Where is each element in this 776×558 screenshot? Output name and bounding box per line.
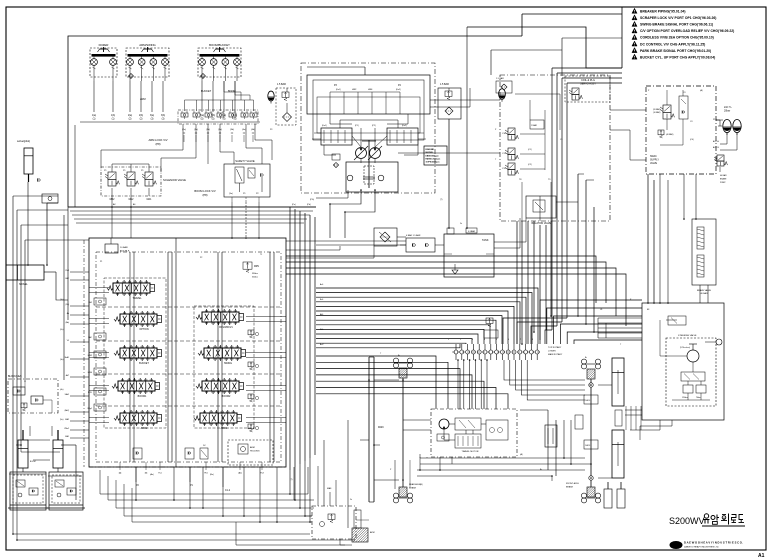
steering inner pipes: [666, 319, 677, 321]
svg-text:XBp1: XBp1: [87, 408, 92, 410]
svg-text:D A E W O O H E A V Y I N D: D A E W O O H E A V Y I N D U S T R I E …: [684, 541, 743, 545]
wire manifold-swac link: [610, 109, 646, 111]
svg-text:(6): (6): [223, 119, 226, 121]
pump suction box: [346, 162, 398, 192]
svg-text:BOOM: BOOM: [30, 461, 36, 463]
MCV bottom port ticks: [119, 462, 121, 470]
svg-text:BRAKE: BRAKE: [566, 486, 574, 489]
svg-text:SUPPLY: SUPPLY: [650, 160, 659, 162]
svg-text:MA2: MA2: [65, 418, 69, 421]
svg-text:(20 BAR): (20 BAR): [653, 108, 661, 111]
svg-text:5: 5: [496, 339, 497, 341]
svg-text:(P8): (P8): [202, 193, 207, 197]
wire bottom right bus risers: [419, 457, 421, 458]
svg-text:0.5BAR: 0.5BAR: [468, 230, 476, 233]
travel counterbalance valve: [455, 418, 481, 430]
rotary joint axis line: [452, 351, 540, 353]
main pump P2: [370, 148, 381, 159]
svg-text:(1): (1): [93, 119, 96, 121]
shuttle valve S5: [229, 113, 236, 117]
block relief: [21, 403, 27, 408]
svg-text:(Ka1): (Ka1): [322, 125, 327, 127]
svg-text:(1): (1): [112, 119, 115, 121]
svg-text:ARM2: ARM2: [141, 427, 148, 430]
wire MCV bottom drop verticals: [135, 467, 137, 500]
filter element: [283, 113, 292, 122]
svg-text:(10 BAR): (10 BAR): [653, 111, 661, 114]
steer cylinder link: [615, 410, 622, 426]
svg-text:MRV: MRV: [254, 266, 260, 268]
svg-text:(x): (x): [252, 133, 255, 135]
brake hose block: [545, 425, 557, 447]
wire cooler return: [286, 240, 406, 242]
MCV port relief valves: [248, 330, 254, 335]
svg-text:BOOM1: BOOM1: [138, 395, 147, 398]
svg-text:(2a): (2a): [182, 129, 186, 131]
solenoid feed lines: [111, 164, 113, 172]
svg-text:3(a): 3(a): [150, 115, 154, 117]
safety lever valve: [235, 167, 244, 183]
shuttle valve S4: [217, 113, 224, 117]
svg-text:(3): (3): [151, 119, 154, 121]
travel motor inner pipes: [449, 423, 455, 425]
wire left margin risers: [63, 215, 65, 380]
svg-text:P1: P1: [100, 261, 102, 263]
svg-text:C1-2: C1-2: [225, 490, 231, 492]
svg-text:SCRAPER LOCK V/V PORT OP1 CHG(: SCRAPER LOCK V/V PORT OP1 CHG('96.03.26): [640, 16, 716, 20]
swac supply valve enclosure: [646, 86, 716, 174]
svg-text:SWAC: SWAC: [650, 155, 657, 158]
note 8 warning triangle: [632, 54, 637, 59]
svg-text:(Ra): (Ra): [66, 304, 70, 306]
MCV spool link lines: [89, 287, 109, 289]
svg-text:10 BAR: 10 BAR: [120, 246, 128, 249]
front axle junction top: [589, 383, 593, 387]
note 2 warning triangle: [632, 15, 637, 20]
svg-text:20bar: 20bar: [724, 110, 730, 113]
svg-text:ARM1: ARM1: [221, 427, 228, 430]
notes enclosure polyline: [467, 27, 622, 68]
cylinder to block links: [22, 468, 24, 472]
notes left boundary line: [621, 7, 623, 68]
svg-text:2(b): 2(b): [139, 115, 143, 117]
outrigger valve block RH: [49, 472, 83, 510]
svg-text:MA1: MA1: [147, 198, 152, 201]
svg-text:(C4): (C4): [690, 139, 694, 141]
pilot circuit enclosure: [68, 36, 522, 207]
solenoid valve MR2: [108, 172, 116, 180]
MCV bottom dashdot line: [89, 466, 286, 468]
wire steering feed risers: [597, 318, 599, 338]
svg-text:HIN2: HIN2: [88, 355, 92, 357]
rotary joint ports: [454, 350, 458, 354]
wire isolation to manifold: [539, 196, 541, 221]
front axle bottom wheels: [581, 493, 586, 498]
wire pilot bus verticals full height: [289, 207, 291, 470]
wire cascade lower to travel motor: [316, 356, 436, 409]
rear axle bottom wheels: [393, 493, 398, 498]
svg-text:BRAKE VALVE: BRAKE VALVE: [697, 289, 712, 292]
wire rotary down right: [504, 360, 585, 380]
MCV spool OPTION: [120, 314, 157, 324]
wire brake valve down: [699, 285, 701, 303]
safety check valve: [261, 174, 263, 176]
solenoid valve MA1: [145, 172, 153, 180]
svg-text:7: 7: [520, 339, 521, 341]
solenoid valve C12: [508, 163, 515, 170]
manifold accumulator: [499, 89, 506, 100]
main pump P1: [356, 148, 367, 159]
oscillation cylinder base A: [604, 489, 612, 508]
svg-text:Ba1: Ba1: [320, 299, 323, 301]
swivel pilot cylinder: [24, 148, 33, 174]
svg-text:BUCKET: BUCKET: [139, 362, 149, 365]
wire pump to manifold: [398, 152, 500, 154]
wire solenoid group down: [111, 207, 113, 238]
svg-text:(P1): (P1): [355, 125, 359, 127]
svg-text:(T): (T): [440, 199, 443, 201]
svg-text:XAC: XAC: [88, 336, 93, 339]
svg-text:BOOM/BUCKET: BOOM/BUCKET: [209, 43, 230, 47]
svg-text:(PG): (PG): [310, 199, 314, 201]
wire bottom right bus: [420, 457, 585, 459]
oil cooler: [374, 228, 397, 246]
svg-text:XAb2: XAb2: [65, 393, 69, 396]
main control valve enclosure: [89, 238, 286, 467]
svg-text:LOWER: LOWER: [548, 351, 556, 353]
pump internal piping: [360, 128, 362, 147]
svg-text:BUCKET CYL. UP PORT CHG APPLY(: BUCKET CYL. UP PORT CHG APPLY('00.08.04): [640, 55, 715, 59]
pilot bus lines: [80, 121, 260, 123]
wire travel box to bus: [439, 457, 441, 470]
pressure switch block: [530, 120, 544, 129]
charge relief: [328, 514, 335, 519]
block check valve 2: [31, 396, 43, 404]
svg-text:(Pb): (Pb): [307, 204, 311, 206]
manifold inner pipes: [515, 93, 560, 95]
svg-text:S200WV: S200WV: [669, 516, 705, 526]
pilot supply riser: [74, 125, 76, 207]
svg-text:PbR: PbR: [88, 302, 92, 304]
svg-text:TANK: TANK: [482, 239, 489, 242]
svg-text:(Ka2): (Ka2): [396, 89, 401, 91]
wire tank feed: [466, 27, 468, 228]
svg-text:(C2): (C2): [528, 164, 532, 166]
wire block to cylinders: [29, 426, 31, 436]
svg-text:Pb1: Pb1: [204, 473, 207, 475]
svg-text:TOP ROTARY: TOP ROTARY: [548, 346, 562, 349]
svg-text:5(a): 5(a): [200, 115, 204, 117]
svg-text:(4b): (4b): [251, 129, 255, 131]
svg-text:RCD: RCD: [88, 392, 93, 394]
main pump assembly enclosure: [307, 75, 430, 114]
wire isolation valve link: [556, 201, 578, 203]
MCV bottom check valves: [133, 448, 142, 459]
svg-text:(40 BAR): (40 BAR): [666, 133, 674, 136]
shuttle valve S2: [193, 113, 200, 117]
engine spec block: [424, 146, 447, 165]
svg-text:CHECK: CHECK: [585, 400, 590, 402]
svg-text:ARM: ARM: [140, 98, 146, 101]
svg-text:T1: T1: [260, 254, 262, 256]
title hangul YU: [704, 519, 710, 521]
svg-text:P2: P2: [200, 257, 202, 259]
axle valve: [575, 415, 583, 429]
wire front axle risers: [555, 420, 557, 476]
wire pilot bus: [74, 218, 307, 220]
svg-text:2.5BAR: 2.5BAR: [531, 124, 538, 127]
svg-text:350bar: 350bar: [252, 276, 258, 279]
svg-text:2(a): 2(a): [128, 115, 132, 117]
svg-text:CORDLESS V/VB 2EA OPTION CHG(': CORDLESS V/VB 2EA OPTION CHG('95.09.10): [640, 36, 714, 40]
svg-text:(5): (5): [201, 119, 204, 121]
swac inner pipes: [666, 90, 668, 105]
accumulator B: [733, 119, 741, 132]
brake valve block: [692, 219, 716, 285]
svg-text:C5: C5: [560, 139, 562, 141]
svg-text:(B): (B): [420, 484, 423, 486]
note 7 warning triangle: [632, 48, 637, 53]
pump gear box: [364, 166, 374, 184]
svg-text:MAIN ROTARY: MAIN ROTARY: [548, 353, 563, 356]
steering spool: [681, 372, 705, 381]
svg-text:Aa2: Aa2: [320, 343, 323, 346]
svg-text:1: 1: [448, 339, 449, 341]
swivel cylinder: [6, 265, 44, 280]
svg-text:R229: R229: [378, 427, 384, 429]
svg-text:6: 6: [508, 339, 509, 341]
solenoid valve C11: [508, 148, 515, 155]
svg-text:(Pa): (Pa): [292, 204, 296, 206]
svg-text:RATED 2000rpm: RATED 2000rpm: [426, 158, 441, 161]
svg-text:BRAKE: BRAKE: [720, 178, 727, 181]
wire charge block links: [305, 515, 312, 517]
svg-text:RCV2/RCV1: RCV2/RCV1: [219, 326, 233, 329]
svg-text:XMa2: XMa2: [64, 428, 69, 430]
svg-text:Bb1: Bb1: [320, 329, 323, 331]
svg-text:(Ba): (Ba): [210, 474, 214, 476]
svg-text:40 BAR: 40 BAR: [700, 292, 708, 295]
pilot gear pump ports: [347, 175, 353, 181]
svg-text:V5: V5: [67, 340, 69, 342]
safety solenoid: [248, 168, 255, 178]
svg-text:SOLENOID VALVE: SOLENOID VALVE: [163, 178, 186, 182]
travel motor enclosure: [431, 409, 517, 457]
svg-text:DB58/1900rpm: DB58/1900rpm: [426, 156, 439, 158]
svg-text:5(b): 5(b): [211, 115, 215, 117]
wire manifold risers to rotary feeds: [577, 174, 579, 316]
title hangul RO: [732, 515, 737, 521]
wire servo to swac: [561, 38, 563, 76]
travel shuttle: [437, 434, 449, 441]
boom cylinder RH: [53, 440, 63, 468]
svg-text:40 BAR: 40 BAR: [720, 174, 727, 177]
oscillation cylinder base B: [617, 489, 625, 508]
MCV inner sub-boxes: [104, 278, 166, 428]
svg-text:2: 2: [460, 339, 461, 341]
svg-text:AUX RLF: AUX RLF: [120, 250, 130, 253]
svg-text:3(b): 3(b): [161, 115, 165, 117]
svg-text:8: 8: [532, 339, 533, 341]
steering relief 120bar: [683, 385, 693, 393]
MCV spool BOOM2: [202, 381, 239, 391]
svg-text:BLOCK(1&2): BLOCK(1&2): [8, 376, 22, 378]
svg-text:SWING: SWING: [224, 362, 232, 365]
svg-text:3: 3: [472, 339, 473, 341]
filter relief: [282, 92, 289, 97]
svg-text:1(b): 1(b): [111, 115, 115, 117]
outrigger valve block LH: [10, 472, 46, 510]
MCV spool BUCKET: [120, 348, 157, 358]
svg-text:(2): (2): [140, 119, 143, 121]
wire manifold down: [521, 221, 523, 344]
tank level lines: [444, 253, 452, 255]
pump inner frame: [313, 80, 424, 140]
svg-text:SWIVEL: SWIVEL: [19, 284, 28, 286]
svg-text:(Ab2): (Ab2): [65, 409, 70, 412]
wire boom cylinder ports: [16, 444, 21, 446]
wire pilot to shuttle row: [184, 100, 186, 111]
solenoid valve C10: [508, 128, 515, 135]
pilot line drop wires: [93, 81, 95, 112]
wire right risers from notes: [551, 68, 553, 330]
wire rotary top feeds right: [540, 300, 642, 344]
note 3 warning triangle: [632, 21, 637, 26]
pipe R229: [368, 357, 370, 502]
svg-text:FRONT AXLE: FRONT AXLE: [566, 482, 580, 485]
svg-text:(A): (A): [700, 89, 703, 92]
svg-text:SWING BRAKE SIGNAL PORT CHG('9: SWING BRAKE SIGNAL PORT CHG('96.06.11): [640, 23, 713, 27]
tank strainer: [452, 270, 458, 274]
note 1 warning triangle: [632, 8, 637, 13]
title hangul HOE: [722, 514, 726, 516]
wire R229 to rear axle: [374, 379, 399, 381]
svg-text:CHECK: CHECK: [585, 445, 590, 447]
svg-text:(P8): (P8): [155, 142, 160, 146]
title hangul DO: [739, 515, 743, 520]
wire shuttle to safety cascade: [255, 124, 272, 160]
pump aux filter diamond: [332, 154, 340, 160]
svg-text:(4a): (4a): [60, 389, 64, 391]
MCV inner dashed boundary: [96, 252, 281, 462]
wire shuttle labels to MCV drop: [183, 135, 185, 142]
steering valve dashed box: [666, 338, 716, 406]
wire travel motor links: [403, 419, 431, 421]
svg-text:HOLDING: HOLDING: [250, 451, 260, 453]
svg-text:70bar: 70bar: [696, 396, 701, 399]
svg-text:4 BAR 1.5 BAR: 4 BAR 1.5 BAR: [406, 234, 421, 237]
wire bottom left bus: [108, 499, 314, 501]
junction dots: [135, 499, 137, 501]
svg-text:Aa1: Aa1: [320, 283, 323, 286]
svg-text:BOOM: BOOM: [228, 90, 236, 93]
return filter element: [445, 107, 453, 115]
svg-text:P3: P3: [270, 129, 272, 131]
note 5 warning triangle: [632, 35, 637, 40]
pilot check diamond 2: [201, 74, 206, 79]
pump regulator LH: [321, 128, 352, 145]
drag link check B: [584, 440, 598, 449]
svg-text:(3a): (3a): [60, 359, 64, 361]
wire pilot bus: [76, 222, 304, 224]
note 4 warning triangle: [632, 28, 637, 33]
pump drive shaft: [368, 140, 370, 188]
svg-text:(Ab): (Ab): [66, 321, 70, 324]
boom cylinder LH: [18, 440, 28, 468]
svg-text:ACC B: ACC B: [713, 146, 720, 149]
svg-text:(A2): (A2): [238, 472, 242, 475]
svg-text:(2): (2): [129, 119, 132, 121]
wire pilot bus: [72, 214, 310, 216]
svg-text:MA2: MA2: [129, 198, 134, 201]
svg-text:Pa3: Pa3: [260, 473, 263, 475]
MCV spool TRAVEL: [113, 283, 150, 293]
pump regulator RH: [387, 128, 418, 145]
arm holding valve: [228, 440, 273, 465]
svg-text:HIN2: HIN2: [352, 89, 356, 91]
svg-text:SAFETY VALVE: SAFETY VALVE: [235, 159, 255, 163]
svg-text:PUMP: PUMP: [720, 182, 726, 184]
wire rotary down to travel: [457, 360, 459, 409]
wire pilot bus: [68, 206, 316, 208]
svg-text:OPTION: OPTION: [139, 328, 148, 331]
svg-text:(Aa): (Aa): [150, 473, 154, 476]
parking valve small: [484, 330, 498, 338]
accumulator A: [723, 119, 731, 132]
wire cascade MCV to rotary joint: [316, 288, 538, 344]
MCV spool ARM1: [200, 413, 237, 423]
svg-text:DOZER: DOZER: [99, 43, 109, 47]
MCV outer dashdot margin line: [83, 240, 85, 467]
wire safety to MCV: [231, 202, 233, 238]
travel reduction block: [455, 434, 481, 448]
MCV bottom DC valve: [200, 448, 208, 459]
servo valve C8: [572, 88, 579, 95]
svg-text:MA1: MA1: [65, 435, 69, 438]
svg-text:Pa1: Pa1: [158, 473, 161, 475]
svg-text:ENGINE: ENGINE: [426, 149, 435, 151]
pump top pipework: [329, 92, 331, 114]
return filter relief: [445, 91, 452, 96]
MCV spool ARM2: [120, 413, 157, 423]
shuttle valve S1: [181, 113, 188, 117]
svg-text:120bar: 120bar: [682, 396, 688, 399]
svg-text:SbA1: SbA1: [65, 356, 69, 359]
travel motor: [439, 419, 449, 429]
bottom strainer tank: [352, 528, 368, 542]
svg-text:BOOM2: BOOM2: [222, 395, 231, 398]
svg-text:BOOM LOCK V/V: BOOM LOCK V/V: [194, 189, 216, 193]
left riser wires: [27, 182, 29, 265]
svg-text:BUCKET: BUCKET: [201, 90, 212, 93]
svg-text:(Ka1): (Ka1): [336, 89, 341, 91]
svg-text:(570cc/rev): (570cc/rev): [680, 347, 690, 349]
MCV spool SWING: [204, 348, 241, 358]
shuttle valve S6: [241, 113, 248, 117]
block check valve 1: [13, 387, 25, 395]
svg-text:TRAVEL: TRAVEL: [132, 297, 142, 300]
wire front axle links: [598, 384, 612, 386]
MCV left port blocks: [94, 298, 106, 305]
swac reducing valve: [663, 105, 671, 113]
hydraulic tank: [444, 234, 494, 277]
svg-text:(1a): (1a): [60, 299, 64, 301]
svg-text:(5a): (5a): [60, 419, 64, 421]
svg-text:ARM/SWING: ARM/SWING: [139, 43, 155, 47]
svg-text:1(a): 1(a): [92, 115, 96, 117]
front axle brake disc top: [587, 369, 595, 379]
svg-text:C3: C3: [690, 121, 692, 123]
